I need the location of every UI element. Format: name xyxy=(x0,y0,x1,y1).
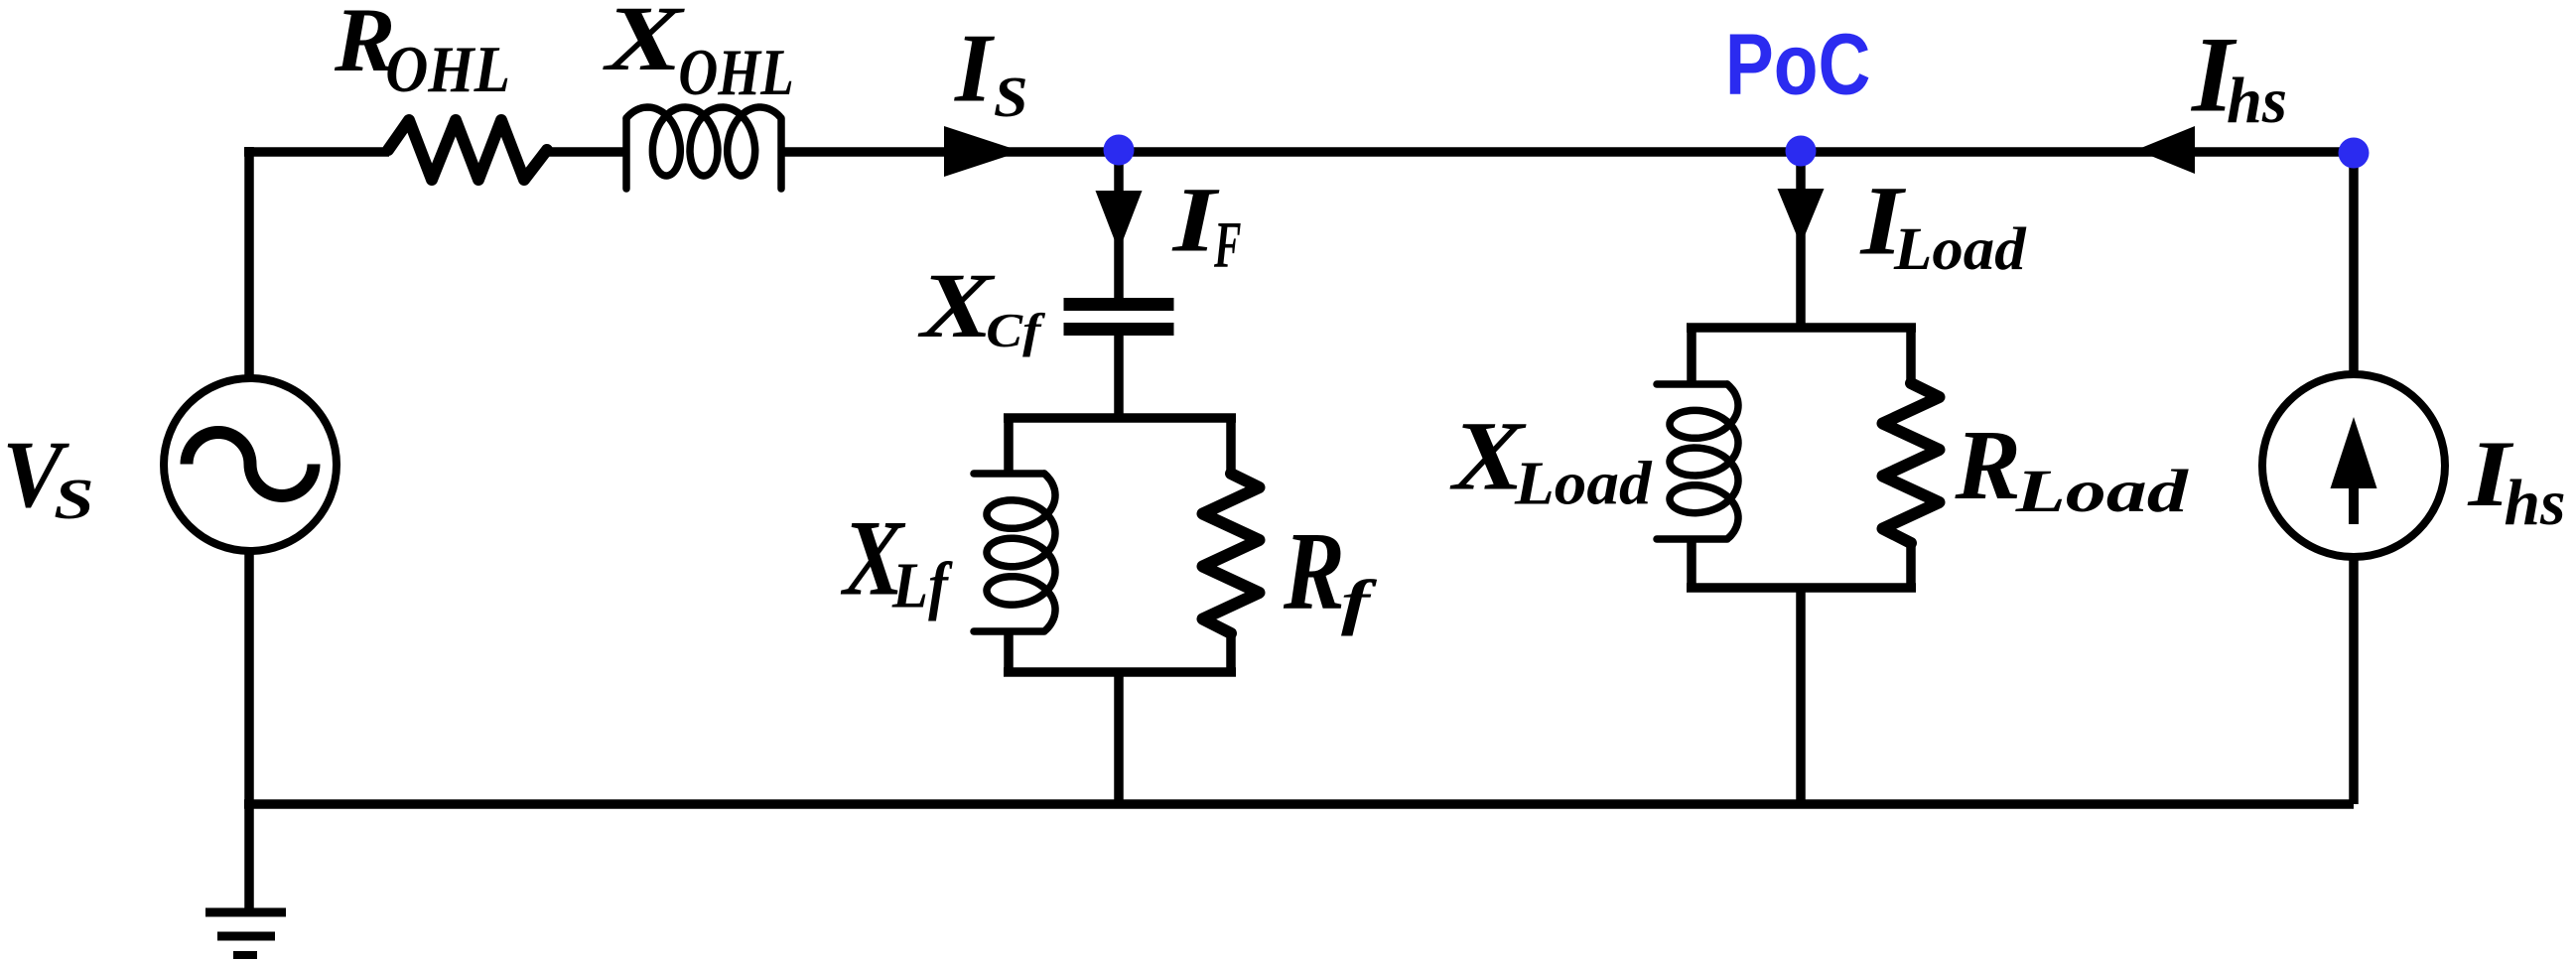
svg-text:PoC: PoC xyxy=(1725,17,1871,113)
svg-text:hs: hs xyxy=(2227,66,2287,138)
svg-text:Cf: Cf xyxy=(986,305,1045,357)
svg-text:Lf: Lf xyxy=(891,549,954,622)
svg-text:S: S xyxy=(994,66,1028,130)
svg-text:OHL: OHL xyxy=(678,36,793,109)
svg-text:OHL: OHL xyxy=(385,32,510,106)
svg-text:S: S xyxy=(54,468,94,531)
svg-text:R: R xyxy=(1283,509,1345,632)
svg-text:Load: Load xyxy=(1514,449,1653,518)
svg-text:X: X xyxy=(603,0,686,89)
svg-text:I: I xyxy=(954,14,995,121)
svg-text:I: I xyxy=(1170,169,1220,271)
svg-text:X: X xyxy=(917,253,995,356)
svg-text:R: R xyxy=(1955,409,2021,520)
svg-text:Load: Load xyxy=(1893,216,2027,283)
svg-text:hs: hs xyxy=(2505,468,2566,539)
svg-text:Load: Load xyxy=(2015,457,2190,525)
svg-text:F: F xyxy=(1213,208,1241,283)
